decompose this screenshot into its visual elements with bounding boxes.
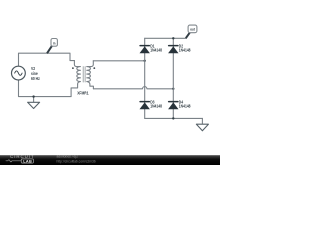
junction dot node B bbox=[172, 88, 174, 90]
ground (left) bbox=[33, 97, 35, 103]
watermark bar bbox=[0, 155, 220, 165]
transformer XFMR1 secondary winding bbox=[87, 61, 94, 89]
wire: secondary top to bridge node A bbox=[93, 60, 144, 62]
diode D1 bbox=[140, 44, 162, 53]
V2 value labels bbox=[31, 67, 40, 82]
wire: source bottom to transformer primary bottom bbox=[19, 80, 78, 97]
svg-text:1N4148: 1N4148 bbox=[179, 104, 191, 108]
wire: secondary bottom to bridge node B with hop over column 1 bbox=[93, 87, 173, 89]
wire: bottom rail bbox=[145, 117, 203, 119]
svg-text:http://circuitlab.com/c2m3b: http://circuitlab.com/c2m3b bbox=[57, 159, 96, 163]
node out flag bbox=[186, 32, 190, 38]
svg-text:XFMR1: XFMR1 bbox=[77, 91, 88, 95]
junction dot bottom rail/D4 bbox=[172, 117, 174, 119]
CircuitLab logo bbox=[6, 154, 35, 164]
polarity dot primary bbox=[72, 67, 74, 69]
svg-text:1N4148: 1N4148 bbox=[150, 48, 162, 52]
junction dot node A bbox=[144, 60, 146, 62]
wire: bridge column 2 (D2/D4) bbox=[172, 38, 174, 118]
svg-text:sine: sine bbox=[31, 72, 38, 76]
wire: source top to transformer primary top bbox=[19, 53, 75, 66]
svg-text:out: out bbox=[190, 27, 196, 31]
svg-text:in: in bbox=[53, 41, 56, 45]
diode D2 bbox=[168, 44, 190, 53]
voltage source V2 bbox=[12, 66, 26, 80]
svg-text:60 Hz: 60 Hz bbox=[31, 77, 40, 81]
transformer XFMR1 primary winding bbox=[74, 61, 80, 85]
ground (right) bbox=[201, 118, 203, 124]
wire: bridge column 1 (D1/D3) bbox=[144, 38, 146, 118]
svg-text:LAB: LAB bbox=[23, 158, 32, 163]
transformer core bbox=[83, 67, 85, 82]
svg-text:adolfobos / ej2: adolfobos / ej2 bbox=[57, 155, 79, 159]
svg-text:1N4148: 1N4148 bbox=[150, 104, 162, 108]
diode D3 bbox=[140, 100, 162, 109]
junction dot rail/D2 bbox=[172, 37, 174, 39]
svg-text:V2: V2 bbox=[31, 67, 35, 71]
watermark text bbox=[57, 155, 96, 164]
wire: top output rail bbox=[145, 37, 187, 39]
junction dot at ground tap bbox=[32, 95, 34, 97]
svg-text:1N4148: 1N4148 bbox=[179, 48, 191, 52]
node in flag bbox=[47, 46, 52, 53]
polarity dot secondary bbox=[93, 67, 95, 69]
diode D4 bbox=[168, 100, 190, 109]
